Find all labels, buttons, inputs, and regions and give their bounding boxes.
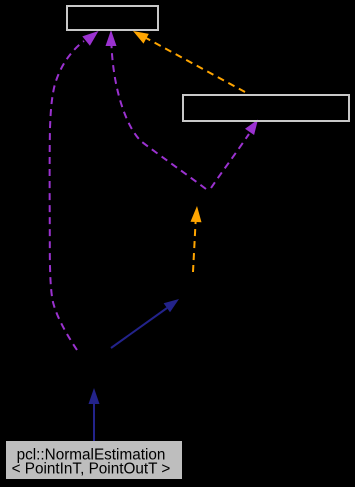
svg-text:< PointInT, PointOutT >: < PointInT, PointOutT > (12, 461, 171, 478)
